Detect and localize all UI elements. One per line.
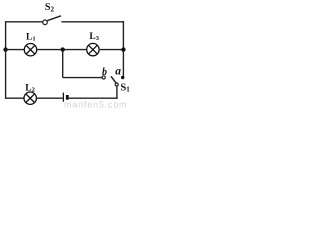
battery short thick plate <box>66 95 69 100</box>
wire bottom-right segment <box>69 97 118 99</box>
wire middle-right segment <box>99 49 123 51</box>
switch S2 contact circle <box>43 20 48 25</box>
lamp L3 <box>87 43 99 55</box>
wire bottom-left segment <box>5 97 24 99</box>
svg-text:a: a <box>115 66 121 78</box>
node junction middle <box>61 47 65 51</box>
node junction left <box>3 47 7 51</box>
wire top-left segment <box>5 21 43 23</box>
switch S1 pole circle <box>115 83 118 86</box>
wire b-branch vertical <box>62 50 64 78</box>
lamp L1 <box>24 44 36 56</box>
wire left vertical <box>5 21 7 99</box>
node a dot <box>121 76 124 79</box>
node junction right <box>121 47 125 51</box>
switch S1 blade <box>111 76 116 83</box>
wire b-branch horizontal <box>63 77 102 79</box>
switch S2 blade <box>47 16 61 21</box>
wire right vertical <box>122 21 124 77</box>
svg-text:manfen5.com: manfen5.com <box>64 100 127 110</box>
svg-text:b: b <box>102 67 107 78</box>
lamp L2 <box>24 92 36 104</box>
wire middle-left segment <box>6 49 25 51</box>
wire top-right segment <box>61 21 124 23</box>
battery long plate <box>62 93 64 102</box>
wire bottom battery-left segment <box>36 97 62 99</box>
wire S1 pole vertical <box>116 86 118 99</box>
wire middle-center segment <box>37 49 87 51</box>
contact b circle <box>102 76 105 79</box>
